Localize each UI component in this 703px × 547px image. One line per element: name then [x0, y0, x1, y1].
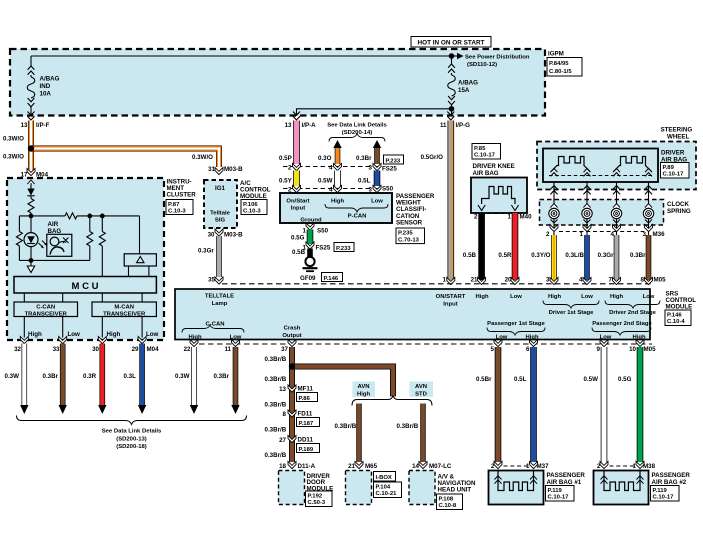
svg-text:P.87: P.87	[168, 202, 180, 208]
svg-text:I/P-F: I/P-F	[36, 122, 50, 129]
wire 0.5Y yellow	[293, 171, 300, 187]
ref box P.85 C.10-17	[472, 144, 501, 160]
svg-text:P.84/95: P.84/95	[549, 61, 569, 67]
svg-text:Low: Low	[600, 334, 612, 340]
svg-text:0.5R: 0.5R	[498, 252, 512, 259]
svg-text:C.80-1/5: C.80-1/5	[549, 69, 572, 75]
svg-text:4: 4	[579, 277, 583, 284]
connector DD11	[288, 435, 296, 442]
svg-text:0.5B: 0.5B	[292, 249, 306, 256]
svg-text:S50: S50	[382, 186, 394, 193]
wires transceivers to pins	[23, 317, 25, 338]
svg-text:M C U: M C U	[72, 281, 99, 292]
svg-text:See Power Distribution: See Power Distribution	[465, 55, 530, 61]
M-CAN transceiver box	[92, 302, 156, 317]
svg-text:0.5B: 0.5B	[463, 252, 477, 259]
svg-text:C.10-17: C.10-17	[663, 172, 685, 178]
svg-text:GF09: GF09	[300, 275, 316, 282]
svg-text:15A: 15A	[458, 87, 470, 94]
ground GF09	[305, 257, 314, 266]
svg-text:M03-B: M03-B	[224, 232, 243, 239]
svg-text:STD: STD	[415, 391, 427, 397]
connector MF11	[288, 385, 296, 392]
svg-text:M65: M65	[365, 463, 378, 470]
connector I/P-F	[28, 112, 35, 121]
driver knee air bag box	[471, 178, 527, 214]
svg-text:0.5L: 0.5L	[514, 376, 527, 383]
svg-text:(SD110-12): (SD110-12)	[467, 62, 497, 68]
wire AVN split	[352, 396, 432, 406]
svg-text:AVN: AVN	[358, 384, 370, 390]
svg-text:33: 33	[53, 346, 60, 353]
svg-text:P.85: P.85	[474, 146, 486, 152]
svg-text:Low: Low	[371, 199, 383, 205]
squib element pab2	[604, 471, 640, 491]
svg-text:Passenger 2nd Stage: Passenger 2nd Stage	[592, 321, 652, 327]
svg-text:2: 2	[546, 231, 550, 238]
wire 0.3Br brown from SRS	[233, 347, 239, 406]
wire 0.5Br brown	[495, 347, 502, 462]
wire 0.5L blue	[374, 171, 381, 187]
fuse A/BAG IND 10A	[30, 56, 32, 66]
svg-text:High: High	[610, 294, 623, 300]
svg-text:0.5Y: 0.5Y	[279, 178, 293, 185]
svg-text:C.70-13: C.70-13	[398, 237, 420, 243]
svg-text:Crash: Crash	[284, 326, 301, 332]
svg-text:FS25: FS25	[382, 166, 397, 173]
wires driver air bag to clock spring	[553, 182, 555, 208]
svg-text:P.233: P.233	[386, 158, 401, 164]
svg-text:High: High	[331, 199, 344, 205]
svg-text:30: 30	[208, 232, 215, 239]
svg-text:P.108: P.108	[439, 496, 454, 502]
svg-text:0.3W: 0.3W	[175, 373, 190, 380]
svg-text:C.10-3: C.10-3	[243, 208, 261, 214]
svg-text:(SD200-13): (SD200-13)	[116, 436, 146, 442]
wire 0.3Br/B crash output	[289, 347, 295, 462]
wire 0.5P pink	[293, 121, 300, 165]
connector pin35	[215, 277, 223, 284]
wire 0.5Gr/O tan I/P-G	[447, 121, 454, 281]
svg-text:P.192: P.192	[308, 493, 323, 499]
svg-text:CLOCK: CLOCK	[667, 201, 690, 208]
wire 0.5G green	[307, 230, 314, 245]
svg-text:I/P-A: I/P-A	[302, 122, 317, 129]
ref box P.87 C.10-3	[166, 200, 193, 215]
svg-text:0.3Y/O: 0.3Y/O	[531, 252, 550, 259]
svg-text:0.3Br/B: 0.3Br/B	[265, 401, 287, 408]
svg-text:8: 8	[641, 277, 645, 284]
connector M03-B pin30	[215, 229, 223, 236]
svg-text:0.3Br: 0.3Br	[630, 252, 646, 259]
wire 0.3W/O horizontal to A/C module	[31, 149, 219, 168]
svg-text:FS25: FS25	[316, 245, 331, 252]
svg-text:P.146: P.146	[667, 312, 682, 318]
wire 0.5R red	[512, 213, 519, 280]
svg-text:High: High	[357, 391, 370, 397]
svg-text:0.3Br: 0.3Br	[214, 373, 230, 380]
svg-text:P.189: P.189	[299, 447, 314, 453]
lamp bus wire	[19, 215, 139, 217]
svg-text:Lamp: Lamp	[212, 301, 228, 307]
svg-text:I/P-G: I/P-G	[456, 122, 471, 129]
svg-text:SPRING: SPRING	[667, 208, 691, 215]
wire 0.3L/B blue	[584, 235, 590, 280]
svg-text:M38: M38	[643, 463, 656, 470]
ref box P.84/95 C.80-1/5	[547, 58, 582, 77]
svg-text:27: 27	[279, 437, 286, 444]
svg-text:C.10-8: C.10-8	[439, 503, 457, 509]
svg-text:P.235: P.235	[398, 231, 413, 237]
ref box P.233	[384, 155, 404, 164]
wire 0.5B black	[478, 213, 485, 280]
svg-text:0.3L: 0.3L	[124, 373, 137, 380]
svg-text:Low: Low	[643, 294, 655, 300]
connector M07-LC pin14	[419, 461, 427, 468]
svg-text:0.3W: 0.3W	[5, 373, 20, 380]
svg-text:0.5G: 0.5G	[618, 376, 632, 383]
svg-text:13: 13	[285, 122, 292, 129]
connector row FS25	[283, 166, 381, 168]
svg-text:3: 3	[369, 165, 373, 172]
brace P-CAN	[325, 204, 388, 212]
C-CAN transceiver box	[14, 302, 78, 317]
svg-text:See Data Link Details: See Data Link Details	[102, 429, 162, 435]
wire 0.3L blue	[139, 344, 145, 406]
svg-text:4: 4	[329, 165, 333, 172]
MCU box	[14, 277, 156, 294]
svg-text:(SD200-18): (SD200-18)	[116, 444, 146, 450]
svg-text:P.146: P.146	[324, 276, 339, 282]
svg-text:M03-B: M03-B	[224, 166, 243, 173]
wire branch to AVN	[292, 367, 393, 397]
svg-text:Output: Output	[282, 333, 301, 339]
junction at fuse bottom	[449, 106, 455, 112]
svg-text:P.187: P.187	[299, 421, 314, 427]
lamp bottom wire	[19, 259, 89, 261]
svg-text:See Data Link Details: See Data Link Details	[327, 123, 387, 129]
svg-text:AVN: AVN	[415, 384, 427, 390]
svg-text:PASSENGER: PASSENGER	[547, 472, 586, 479]
svg-text:0.3O: 0.3O	[318, 155, 332, 162]
svg-text:5: 5	[491, 346, 495, 353]
A/V NAVIGATION box (dashed)	[409, 471, 435, 505]
wires below coils	[553, 219, 555, 236]
svg-text:HOT IN ON OR START: HOT IN ON OR START	[418, 40, 485, 47]
svg-text:IGPM: IGPM	[548, 51, 564, 58]
svg-text:Input: Input	[291, 206, 305, 212]
svg-text:HEAD UNIT: HEAD UNIT	[438, 487, 472, 494]
svg-text:A/BAG: A/BAG	[458, 80, 478, 87]
connector I/P-G	[447, 112, 454, 121]
svg-text:Low: Low	[510, 294, 522, 300]
svg-text:1: 1	[580, 231, 584, 238]
svg-text:Input: Input	[443, 301, 457, 307]
svg-text:14: 14	[412, 463, 419, 470]
svg-text:Passenger 1st Stage: Passenger 1st Stage	[487, 321, 545, 327]
connector chevron into cluster	[27, 180, 34, 184]
wire 0.3W/O vertical from I/P-F	[28, 121, 34, 171]
svg-text:IND: IND	[40, 83, 51, 90]
connector M03-B pin31	[215, 167, 223, 174]
svg-text:A/BAG: A/BAG	[40, 76, 60, 83]
svg-text:P.233: P.233	[336, 246, 351, 252]
connector M65 pin21	[355, 461, 363, 468]
svg-text:0.3W/O: 0.3W/O	[192, 154, 213, 161]
svg-text:C.10-17: C.10-17	[548, 495, 570, 501]
svg-text:0.3Br/B: 0.3Br/B	[265, 376, 287, 383]
svg-text:10A: 10A	[40, 91, 52, 98]
svg-text:0.5P: 0.5P	[279, 155, 292, 162]
connector S50 pin1	[306, 223, 314, 230]
instrument cluster box (dashed)	[7, 178, 164, 340]
svg-text:11: 11	[440, 122, 447, 129]
svg-text:Low: Low	[581, 294, 593, 300]
svg-text:FD11: FD11	[298, 411, 313, 418]
wire 0.3R red	[100, 344, 106, 406]
svg-text:C-CAN: C-CAN	[206, 322, 225, 328]
svg-text:0.3Br/B: 0.3Br/B	[265, 427, 287, 434]
svg-text:C.10-17: C.10-17	[653, 495, 675, 501]
svg-text:D11-A: D11-A	[298, 463, 316, 470]
connectors M04 row	[20, 336, 28, 343]
svg-text:Ground: Ground	[300, 218, 322, 224]
svg-text:0.5G: 0.5G	[291, 235, 305, 242]
inner connector dashes	[549, 175, 652, 177]
wire branch to I/P-A	[297, 109, 452, 116]
squib element pab1	[498, 471, 534, 491]
svg-text:AIR: AIR	[48, 221, 59, 228]
svg-text:I-BOX: I-BOX	[376, 475, 392, 481]
connector M04 pin17	[27, 168, 35, 175]
svg-text:M37: M37	[537, 463, 550, 470]
SRS bottom connector dashed row	[199, 343, 652, 345]
passenger air bag #1 box	[489, 471, 544, 505]
svg-text:0.3Br/B: 0.3Br/B	[265, 452, 287, 459]
wires MCU to transceivers	[23, 293, 25, 302]
brace driver 2nd stage	[605, 301, 660, 309]
node dots	[29, 214, 34, 219]
squib element driver 1st	[551, 157, 590, 172]
connector row S50	[283, 188, 381, 190]
svg-text:C.10-4: C.10-4	[667, 319, 685, 325]
SRS control module box	[175, 289, 650, 340]
svg-text:0.3Gr: 0.3Gr	[198, 248, 214, 255]
steering wheel box (dashed)	[537, 142, 696, 190]
svg-text:P.86: P.86	[299, 396, 311, 402]
passenger air bag #2 box	[594, 471, 649, 505]
diode	[30, 183, 32, 189]
svg-text:TRANSCEIVER: TRANSCEIVER	[103, 311, 146, 317]
svg-text:8: 8	[283, 411, 287, 418]
svg-text:High: High	[475, 294, 488, 300]
svg-text:P.106: P.106	[243, 202, 258, 208]
svg-text:0.3W/O: 0.3W/O	[3, 154, 24, 161]
wire 0.3Br brown	[60, 344, 66, 406]
svg-text:S50: S50	[317, 228, 329, 235]
svg-text:Low: Low	[146, 331, 159, 338]
connector FS25 pin1	[306, 242, 314, 249]
squib element knee	[482, 187, 515, 205]
svg-text:21: 21	[471, 277, 478, 284]
svg-text:0.3W/O: 0.3W/O	[3, 136, 24, 143]
svg-text:Driver 1st Stage: Driver 1st Stage	[549, 310, 595, 316]
driver air bag box	[543, 149, 658, 183]
svg-text:2: 2	[474, 214, 478, 221]
svg-text:High: High	[107, 331, 121, 338]
svg-text:M40: M40	[520, 214, 533, 221]
junction node crash	[289, 363, 295, 369]
svg-text:SENSOR: SENSOR	[396, 219, 423, 226]
svg-text:IG1: IG1	[215, 185, 226, 192]
svg-text:13: 13	[21, 122, 28, 129]
wire 0.5W white	[601, 347, 608, 462]
wire 0.5L blue	[530, 347, 537, 462]
LED airbag lamp	[30, 216, 32, 233]
svg-text:C.10-17: C.10-17	[474, 153, 496, 159]
clock spring coils	[549, 208, 559, 218]
svg-text:DD11: DD11	[298, 436, 314, 443]
svg-text:22: 22	[184, 346, 191, 353]
IGPM fuse box (dashed)	[10, 49, 545, 116]
svg-text:35: 35	[208, 277, 215, 284]
wire 0.5B black	[307, 249, 313, 259]
junction node redraw	[28, 145, 34, 151]
svg-text:0.5Gr/O: 0.5Gr/O	[421, 154, 444, 161]
svg-text:MF11: MF11	[298, 386, 314, 393]
brace driver 1st stage	[543, 301, 599, 309]
svg-text:P.89: P.89	[663, 165, 675, 171]
IG1 telltale box (dashed)	[204, 180, 237, 228]
left branch with resistor	[18, 216, 20, 261]
PWCS box	[280, 193, 392, 223]
connectors into SRS top	[550, 277, 558, 284]
svg-text:AIR BAG: AIR BAG	[473, 170, 499, 177]
svg-text:M04: M04	[147, 346, 160, 353]
svg-text:STEERING: STEERING	[661, 126, 693, 133]
wire top bus	[31, 55, 452, 57]
resistor branch 1	[89, 216, 91, 261]
svg-text:13: 13	[279, 386, 286, 393]
svg-text:High: High	[548, 294, 561, 300]
svg-text:0.3Br: 0.3Br	[356, 155, 372, 162]
svg-text:37: 37	[281, 346, 288, 353]
svg-text:C.10-3: C.10-3	[168, 208, 186, 214]
svg-text:18: 18	[279, 463, 286, 470]
svg-text:1: 1	[443, 277, 447, 284]
svg-text:0.3Br: 0.3Br	[43, 373, 59, 380]
svg-text:11: 11	[224, 346, 231, 353]
svg-text:M05: M05	[644, 346, 657, 353]
svg-text:P.104: P.104	[376, 484, 391, 490]
svg-text:3: 3	[546, 277, 550, 284]
brace see data link	[17, 416, 247, 425]
svg-text:C.50-3: C.50-3	[308, 500, 326, 506]
svg-text:Telltale: Telltale	[210, 211, 231, 217]
connector M38 row	[600, 461, 608, 468]
driver stage box with triangle	[139, 216, 141, 254]
svg-text:0.3Br/B: 0.3Br/B	[397, 423, 419, 430]
junction node	[28, 146, 33, 151]
svg-text:21: 21	[348, 463, 355, 470]
svg-text:P.119: P.119	[548, 488, 563, 494]
svg-text:0.5Br: 0.5Br	[476, 376, 492, 383]
svg-text:Driver 2nd Stage: Driver 2nd Stage	[609, 310, 657, 316]
wire 0.3Y/O yellow	[551, 235, 557, 280]
label HOT IN ON OR START	[411, 37, 491, 48]
AVN High label	[353, 382, 376, 398]
connector I/P-A	[293, 112, 300, 121]
svg-text:2: 2	[491, 463, 495, 470]
wire 0.3Gr gray	[614, 235, 620, 280]
svg-text:0.5L: 0.5L	[358, 178, 371, 185]
svg-text:TELLTALE: TELLTALE	[205, 294, 234, 300]
wire 0.3Br brown	[646, 235, 652, 280]
svg-text:PASSENGER: PASSENGER	[652, 472, 691, 479]
svg-text:29: 29	[132, 346, 139, 353]
resistor inline horizontal	[65, 213, 77, 219]
wire 0.3W white	[21, 344, 27, 406]
svg-text:2: 2	[288, 165, 292, 172]
connector FD11	[288, 410, 296, 417]
svg-text:30: 30	[92, 346, 99, 353]
svg-text:0.5W: 0.5W	[584, 376, 599, 383]
svg-text:P.119: P.119	[653, 488, 668, 494]
svg-text:0.3Br/B: 0.3Br/B	[265, 356, 287, 363]
connector pin1 ON/START	[447, 277, 455, 284]
connector M37 row	[494, 461, 502, 468]
open ground triangle	[27, 266, 34, 273]
svg-text:C.10-21: C.10-21	[376, 491, 398, 497]
clock spring box (dashed)	[540, 200, 664, 226]
wire 0.3Br brown with arrow	[373, 140, 381, 148]
svg-text:M05: M05	[654, 277, 667, 284]
wire 0.5G green	[637, 347, 644, 462]
resistor R-lamp	[30, 196, 32, 199]
svg-text:On/Start: On/Start	[286, 199, 309, 205]
svg-text:1: 1	[508, 214, 512, 221]
fuse A/BAG 15A	[449, 53, 455, 59]
svg-text:1: 1	[633, 463, 637, 470]
squib element driver 2nd	[614, 157, 652, 172]
svg-text:2: 2	[597, 463, 601, 470]
svg-text:0.3L/B: 0.3L/B	[565, 252, 584, 259]
connector D11-A pin18	[288, 461, 296, 468]
ref box P.106 C.10-3	[241, 200, 267, 215]
svg-text:7: 7	[609, 277, 613, 284]
ref box P.146 C.10-4	[665, 310, 691, 326]
svg-text:TRANSCEIVER: TRANSCEIVER	[25, 311, 68, 317]
I-BOX box (dashed)	[346, 471, 372, 505]
svg-text:SIG: SIG	[215, 218, 226, 224]
svg-text:9: 9	[597, 346, 601, 353]
svg-text:0.5W: 0.5W	[318, 178, 333, 185]
svg-text:WHEEL: WHEEL	[667, 134, 690, 141]
svg-text:High: High	[28, 331, 42, 338]
brace	[329, 134, 385, 142]
svg-text:32: 32	[14, 346, 21, 353]
ref box P.235 C.70-13	[396, 228, 425, 244]
svg-text:DRIVER: DRIVER	[661, 149, 685, 156]
svg-text:DRIVER KNEE: DRIVER KNEE	[473, 163, 515, 170]
svg-text:1: 1	[526, 463, 530, 470]
airbag pictogram box	[47, 234, 72, 256]
wire 0.3O orange with arrow	[333, 140, 341, 148]
AVN STD label	[410, 382, 434, 398]
svg-text:M07-LC: M07-LC	[429, 463, 452, 470]
wire 0.3Gr gray	[216, 236, 222, 277]
svg-text:P-CAN: P-CAN	[348, 213, 367, 219]
